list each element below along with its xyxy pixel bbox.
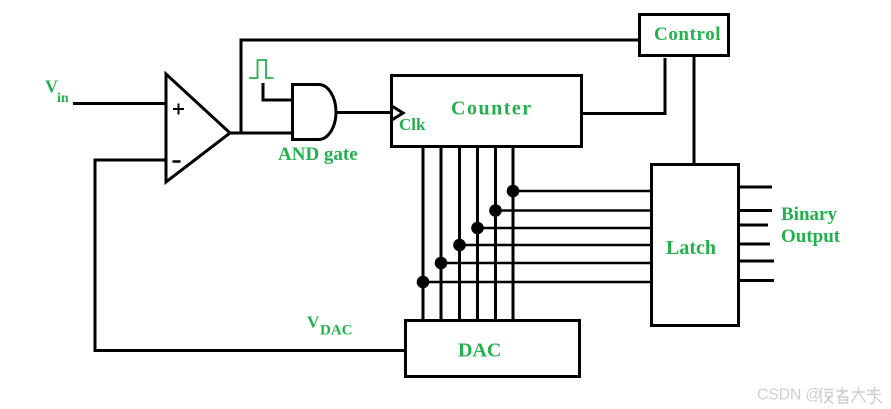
latch output stub 2 (740, 209, 772, 212)
junction dot bit5 (489, 204, 502, 217)
op-amp comparator U1 (166, 74, 230, 182)
svg-text:Binary: Binary (781, 204, 837, 225)
latch output stub 1 (740, 186, 772, 189)
control box (640, 15, 729, 56)
latch output stub 3 (740, 224, 768, 227)
bus wire 3 vertical (458, 148, 461, 321)
wire bit5 to latch (496, 209, 652, 212)
DAC box (406, 321, 580, 377)
svg-text:DAC: DAC (458, 340, 501, 362)
wire Vin to comparator + input (73, 102, 167, 105)
latch output stub 6 (740, 279, 774, 282)
junction dot bit6 (507, 185, 520, 198)
latch output stub 4 (740, 243, 770, 246)
bus wire 6 vertical (512, 148, 515, 321)
node VDAC label (307, 313, 353, 339)
wire bit2 to latch (441, 262, 651, 265)
wire bit3 to latch (460, 244, 652, 247)
AND gate (293, 85, 337, 140)
wire junction up to control (vertical + top horizontal) (241, 40, 638, 133)
wire AND output to Counter Clk (336, 111, 392, 114)
junction dot bit4 (471, 222, 484, 235)
latch output stub 5 (740, 260, 774, 263)
junction dot bit3 (453, 239, 466, 252)
svg-text:V: V (307, 313, 320, 332)
counter box (392, 76, 582, 147)
svg-text:Counter: Counter (451, 98, 533, 120)
bus wire 5 vertical (494, 148, 497, 321)
latch box (652, 165, 739, 326)
bus wire 1 vertical (422, 148, 425, 321)
junction dot bit2 (435, 257, 448, 270)
junction dot bit1 (417, 276, 430, 289)
wire Control to Latch (693, 57, 696, 164)
wire bit6 to latch (513, 190, 651, 193)
svg-text:in: in (57, 91, 69, 106)
wire comparator - input feedback to DAC (95, 160, 404, 351)
svg-text:Clk: Clk (399, 115, 426, 134)
wire comparator output to AND gate input (228, 132, 293, 135)
svg-text:AND gate: AND gate (278, 144, 358, 165)
wire bit1 to latch (423, 281, 651, 284)
svg-text:Output: Output (781, 226, 841, 247)
svg-text:CSDN @: CSDN @ (757, 387, 821, 404)
bus wire 4 vertical (476, 148, 479, 321)
clk wedge (391, 106, 403, 121)
wire Counter output to Control (583, 58, 665, 114)
svg-text:Latch: Latch (666, 237, 716, 259)
svg-text:DAC: DAC (320, 323, 353, 339)
clock pulse symbol (249, 60, 274, 78)
node Vin label (45, 77, 69, 107)
watermark CJK glyphs (820, 387, 882, 404)
- input marker (173, 160, 181, 163)
svg-text:Control: Control (654, 24, 721, 45)
+ input marker (173, 104, 184, 115)
wire clock to AND gate top input (263, 83, 293, 100)
bus wire 2 vertical (440, 148, 443, 321)
wire bit4 to latch (478, 227, 652, 230)
watermark CSDN (757, 387, 821, 404)
